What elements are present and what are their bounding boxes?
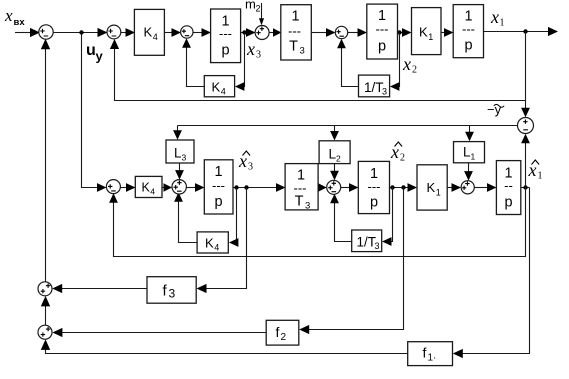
block f2	[266, 320, 299, 345]
wire S3 to integrator B2	[193, 28, 211, 37]
svg-text:K: K	[142, 181, 151, 195]
label x2	[402, 54, 417, 76]
svg-text:3: 3	[182, 153, 187, 163]
svg-text:3: 3	[256, 50, 261, 61]
wire -y down into S6 top	[521, 101, 530, 118]
wire xh1 up into S6 bottom	[521, 134, 530, 188]
block K4 B1	[134, 9, 164, 55]
label xhat3	[238, 151, 253, 173]
wire R-1p3 output xh1 node	[521, 185, 530, 189]
label 1/T3 row2 feedback	[357, 235, 380, 252]
svg-text:1: 1	[436, 188, 441, 198]
svg-text:x: x	[402, 54, 411, 74]
svg-text:---: ---	[368, 179, 381, 194]
svg-text:1: 1	[428, 32, 433, 42]
block K4 row2	[135, 176, 162, 197]
svg-text:p: p	[214, 194, 222, 210]
wire K4 row2 feedback to R2 bottom	[174, 192, 197, 242]
wire B4 to K1 with x2 junction	[397, 28, 411, 37]
wire xh2 down to f2 block	[299, 188, 403, 335]
svg-text:1·: 1·	[428, 353, 437, 364]
label f2	[276, 324, 287, 343]
label K4 row2	[142, 181, 156, 197]
wire m2 into S4 top	[259, 3, 264, 25]
svg-text:2: 2	[336, 154, 341, 164]
label L1	[463, 145, 476, 162]
svg-text:1: 1	[500, 18, 505, 29]
label L2	[329, 147, 342, 164]
summing junction S2	[107, 25, 121, 39]
wire xh1 down to f1 block	[453, 188, 530, 359]
svg-text:2: 2	[256, 4, 261, 14]
label 1/p in B2	[219, 14, 232, 59]
svg-text:p: p	[464, 38, 472, 54]
wire K1 to integrator B7	[441, 28, 454, 37]
wire S4 to T3 block	[270, 28, 282, 36]
wire K1 row2 to R4	[447, 183, 461, 192]
wire 1/T3 row2 feedback to R3 bottom	[330, 194, 351, 242]
label 1/p in B7	[462, 9, 475, 54]
summing junction S4 m2	[255, 26, 269, 40]
wire R3 to integrator R-1p2	[341, 183, 359, 192]
block integrator 1/p row2 second	[358, 161, 389, 213]
label 1/p row2 second	[368, 166, 381, 211]
label K4 in feedback top	[212, 80, 226, 97]
block L1	[454, 142, 485, 163]
wire S2 to K4 block	[121, 28, 135, 37]
block integrator 1/p B4	[367, 4, 398, 59]
summing junction S1	[39, 25, 53, 39]
block K4 row2 feedback	[197, 232, 228, 253]
svg-text:x: x	[528, 160, 537, 180]
label f1	[423, 345, 437, 364]
wire L1 down into R4 top	[464, 163, 473, 181]
label uy	[86, 42, 104, 64]
svg-text:x: x	[490, 7, 499, 27]
svg-text:u: u	[86, 42, 96, 59]
block K1 B6	[412, 8, 442, 55]
wire f3 output to F3 circle	[52, 284, 147, 293]
wire R-1p output to 1/T3 row2 block with xh3 junctions	[233, 183, 286, 192]
svg-text:f: f	[423, 345, 427, 361]
label x1	[490, 7, 505, 29]
wire R4 to integrator R-1p3	[475, 183, 497, 192]
block f3	[147, 277, 196, 304]
summing junction S3	[181, 26, 193, 38]
label 1/p row2 third	[504, 166, 513, 211]
svg-text:T: T	[289, 39, 298, 55]
wire R-1p2 output to K1 row2 with xh2 junctions	[390, 183, 418, 192]
svg-text:4: 4	[214, 243, 219, 253]
summing junction F2	[38, 325, 52, 339]
wire branch down into L1	[465, 126, 474, 142]
svg-text:4: 4	[221, 87, 226, 97]
svg-text:---: ---	[462, 22, 475, 37]
label 1/T3 in feedback top	[364, 80, 387, 97]
summing junction R3	[327, 180, 341, 194]
svg-text:x: x	[390, 142, 399, 162]
wire S6 output left to L blocks	[178, 125, 518, 127]
label K4 in B1	[144, 25, 158, 43]
block 1/T3 row2 feedback	[352, 230, 382, 252]
block K1 row2	[417, 165, 447, 210]
label xhat2	[390, 142, 405, 164]
wire uy drop from top line into R1	[82, 33, 107, 192]
wire branch down into L3	[173, 126, 182, 140]
label m2	[245, 0, 261, 14]
block integrator 1/p B7	[453, 5, 483, 58]
wire S1 to S2 with uy junction	[54, 28, 108, 37]
svg-text:2: 2	[281, 332, 287, 343]
svg-text:K: K	[427, 180, 436, 195]
svg-text:---: ---	[219, 26, 232, 41]
svg-text:---: ---	[376, 22, 389, 37]
svg-text:1/T: 1/T	[364, 80, 384, 95]
svg-text:y: y	[96, 49, 104, 64]
svg-text:2: 2	[412, 65, 417, 76]
label K1 row2	[427, 180, 441, 198]
svg-text:K: K	[144, 25, 153, 40]
wire f2 output to F2 circle	[52, 328, 266, 337]
label 1/p row2	[212, 164, 225, 210]
svg-text:--: --	[504, 178, 513, 193]
svg-text:2: 2	[400, 153, 405, 164]
wire B2 to S4 with x3 junction	[241, 28, 256, 37]
svg-text:p: p	[370, 195, 378, 211]
block 1/T3 B3	[281, 5, 312, 60]
label K4 row2 feedback	[205, 236, 219, 253]
wire R1 to K4 row2	[121, 183, 136, 192]
block integrator 1/p B2	[211, 9, 241, 63]
svg-text:f: f	[276, 324, 280, 340]
svg-text:3: 3	[375, 241, 380, 251]
wire x3 down to K4 feedback block	[235, 33, 245, 91]
label L3	[174, 146, 187, 163]
wire xh3 down to f3 block	[197, 188, 247, 294]
svg-text:p: p	[378, 39, 386, 55]
block 1/T3 feedback top	[359, 75, 390, 97]
svg-text:---: ---	[212, 178, 225, 193]
svg-text:1: 1	[538, 171, 543, 182]
svg-text:−y: −y	[487, 102, 502, 117]
wire xh3 down to K4 row2 feedback	[229, 188, 239, 247]
svg-text:1: 1	[291, 9, 299, 25]
svg-text:x: x	[4, 6, 13, 25]
wire T3 to S5	[312, 28, 336, 37]
block L2	[319, 141, 350, 164]
svg-text:3: 3	[382, 87, 387, 97]
block 1/T3 row2	[285, 164, 318, 210]
svg-text:3: 3	[300, 46, 305, 57]
wire input x_vx arrow into S1	[15, 28, 40, 37]
svg-text:3: 3	[169, 287, 176, 301]
svg-text:4: 4	[153, 32, 158, 42]
summing junction S6	[518, 118, 534, 134]
summing junction F3	[38, 282, 52, 296]
label xhat1	[528, 160, 543, 182]
summing junction R2	[172, 180, 186, 194]
svg-text:T: T	[295, 194, 304, 210]
label 1/T3 row2	[294, 168, 311, 212]
label K1 in B6	[419, 25, 433, 43]
svg-text:4: 4	[150, 187, 155, 197]
block integrator 1/p row2 third	[496, 161, 520, 215]
wire S5 to integrator B4	[348, 28, 367, 37]
label -y tilde	[487, 102, 504, 117]
wire F2 output up to F3 bottom	[41, 296, 50, 326]
label x3	[246, 39, 261, 61]
wire L2 down into R3 top	[330, 164, 339, 181]
label 1/T3 in B3	[288, 9, 305, 57]
wire 1/T3 feedback to S5 bottom	[337, 39, 358, 87]
svg-text:m: m	[245, 0, 256, 12]
wire xh2 down to 1/T3 row2 feedback	[382, 188, 393, 246]
svg-text:K: K	[205, 236, 214, 251]
svg-text:---: ---	[288, 24, 301, 39]
wire branch down into L2	[330, 126, 339, 141]
summing junction R1	[106, 180, 120, 194]
wire K4 feedback to S3 bottom	[182, 38, 204, 86]
summing junction S5	[335, 26, 347, 38]
svg-text:x: x	[238, 151, 247, 171]
wire F3 output up to S1 bottom	[41, 39, 50, 282]
label f3	[163, 283, 176, 301]
wire 1/T3 row2 to R3	[318, 183, 327, 191]
wire B7 output x1 to right edge	[484, 27, 559, 36]
svg-text:1: 1	[471, 152, 476, 162]
wire -y feedback down from x1 and left to S2	[110, 32, 526, 101]
svg-text:вх: вх	[14, 17, 26, 28]
wire R2 to integrator R-1p	[187, 183, 205, 192]
wire L3 down into R2 top	[175, 163, 184, 180]
block f1	[408, 342, 453, 366]
label x_vx	[4, 6, 25, 28]
block integrator 1/p row2	[204, 160, 233, 214]
wire f1 output left and up to F2 bottom	[41, 339, 408, 353]
block K4 feedback top	[204, 76, 234, 97]
wire xh1 long feedback to R1 bottom	[109, 188, 525, 257]
svg-text:3: 3	[305, 201, 310, 212]
svg-text:1/T: 1/T	[357, 235, 377, 250]
svg-text:3: 3	[248, 162, 253, 173]
wire K4 row2 to R2	[162, 183, 172, 191]
summing junction R4	[461, 181, 474, 194]
svg-text:K: K	[419, 25, 428, 40]
svg-text:K: K	[212, 80, 221, 95]
wire x2 down to 1/T3 feedback block	[390, 33, 400, 91]
svg-text:p: p	[221, 43, 229, 59]
block L3	[166, 140, 194, 163]
svg-text:x: x	[246, 39, 255, 59]
wire K4 to S3	[165, 28, 182, 37]
label 1/p in B4	[376, 8, 389, 55]
svg-text:p: p	[504, 195, 512, 211]
